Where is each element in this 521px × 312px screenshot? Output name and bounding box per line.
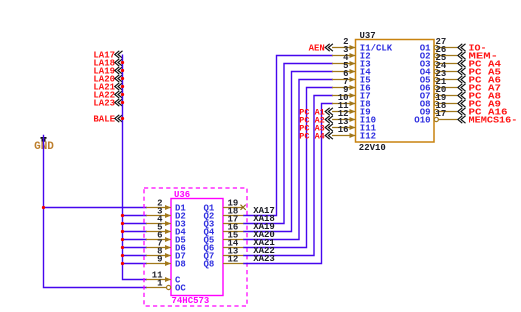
U37 pin O3 (pin 25, active low) (420, 53, 457, 69)
wire: GND vertical down to U36 pin OC (44, 135, 148, 288)
U37 pin O10 (pin 17, active low) (414, 109, 457, 125)
junction D8 (121, 262, 124, 265)
ground symbol GND (34, 137, 54, 153)
svg-text:16: 16 (338, 125, 349, 135)
wire XA20: U36 Q5 up to U37 I5 (243, 80, 333, 240)
net label LA18 with off-page connector (93, 58, 122, 68)
U37 pin I3 (pin 4) (332, 53, 371, 69)
U36 pin C (pin 11) (146, 270, 181, 285)
net label PC A9 with off-page connector (458, 98, 502, 109)
net label MEMCS16- with off-page connector (458, 114, 518, 125)
U36 pin Q2 (pin 18) (203, 206, 244, 221)
U37 pin I10 (pin 12) (332, 109, 376, 125)
svg-text:17: 17 (436, 109, 447, 119)
U36 pin D3 (pin 4) (146, 214, 186, 229)
U36 pin Q6 (pin 14) (203, 238, 244, 253)
wire: bus to U36 pin D7 (123, 255, 148, 257)
no-connect X on U36 pin Q1 (241, 205, 246, 210)
net label PC A16 with off-page connector (458, 106, 508, 117)
svg-text:MEMCS16-: MEMCS16- (469, 114, 518, 125)
net label PC A8 with off-page connector (458, 90, 502, 101)
wire: LA/BALE vertical bus down to U36 pin C (123, 55, 148, 280)
U36 pin Q4 (pin 16) (203, 222, 244, 237)
junction GND/D1 branch (42, 206, 45, 209)
junction D6 (121, 246, 124, 249)
U36 pin Q3 (pin 17) (203, 214, 244, 229)
net label LA19 with off-page connector (93, 66, 122, 76)
net label PC A3 with off-page connector (299, 123, 333, 133)
net label LA21 with off-page connector (93, 82, 122, 92)
wire XA23: U36 Q8 up to U37 I8 (243, 104, 333, 264)
wire XA21: U36 Q6 up to U37 I6 (243, 88, 333, 248)
svg-text:U36: U36 (174, 190, 190, 200)
junction D5 (121, 238, 124, 241)
wire XA17: U36 Q2 up to U37 I2 (243, 56, 333, 216)
svg-text:BALE: BALE (93, 114, 115, 124)
U37 pin O1 (pin 27, active low) (420, 37, 457, 53)
U37 pin O4 (pin 24, active low) (420, 61, 457, 77)
wire: bus to U36 pin D6 (123, 247, 148, 249)
U36 pin D5 (pin 6) (146, 230, 186, 245)
PLD U37 22V10 body (356, 40, 435, 143)
U36 pin D7 (pin 8) (146, 246, 186, 261)
svg-text:AEN: AEN (309, 43, 325, 53)
svg-text:U37: U37 (360, 31, 376, 41)
net label LA17 with off-page connector (93, 50, 122, 60)
junction LA19 (121, 69, 124, 72)
U37 pin I8 (pin 10) (332, 93, 371, 109)
U37 pin I5 (pin 6) (332, 69, 371, 85)
net label BALE with off-page connector (93, 114, 122, 124)
U37 pin I9 (pin 11) (332, 101, 371, 117)
U36 pin D2 (pin 3) (146, 206, 186, 221)
svg-text:D8: D8 (175, 259, 186, 269)
svg-text:Q8: Q8 (203, 259, 214, 269)
svg-text:PC A4: PC A4 (299, 131, 325, 141)
U37 pin I7 (pin 9) (332, 85, 371, 101)
wire: bus to U36 pin D5 (123, 239, 148, 241)
net label LA22 with off-page connector (93, 90, 122, 100)
wire XA18: U36 Q3 up to U37 I3 (243, 64, 333, 224)
svg-text:22V10: 22V10 (359, 143, 386, 153)
svg-text:LA23: LA23 (93, 98, 115, 108)
net label PC A1 with off-page connector (299, 107, 333, 117)
U37 pin O2 (pin 26, active low) (420, 45, 457, 61)
U37 pin I2 (pin 3) (332, 45, 371, 61)
net label PC A6 with off-page connector (458, 74, 502, 85)
U36 pin Q1 (pin 19) (203, 198, 244, 213)
junction D2 (121, 214, 124, 217)
net label MEM- with off-page connector (458, 50, 498, 61)
wire: bus to U36 pin D2 (123, 215, 148, 217)
U37 pin I12 (pin 16) (332, 125, 376, 141)
junction LA20 (121, 77, 124, 80)
junction BALE (121, 117, 124, 120)
svg-text:I12: I12 (360, 131, 376, 141)
U36 pin D4 (pin 5) (146, 222, 186, 237)
U37 pin I4 (pin 5) (332, 61, 371, 77)
svg-text:OC: OC (175, 283, 186, 293)
net label IO- with off-page connector (458, 42, 487, 53)
U37 pin I11 (pin 13) (332, 117, 377, 133)
junction D4 (121, 230, 124, 233)
U37 pin I6 (pin 7) (332, 77, 371, 93)
net label PC A2 with off-page connector (299, 115, 333, 125)
U37 pin O8 (pin 19, active low) (420, 93, 457, 109)
U36 pin D1 (pin 2) (146, 198, 186, 213)
latch U36 74HC573 body (171, 199, 223, 296)
wire XA22: U36 Q7 up to U37 I7 (243, 96, 333, 256)
svg-text:XA23: XA23 (253, 254, 275, 264)
U37 pin O6 (pin 21, active low) (420, 77, 457, 93)
net label PC A7 with off-page connector (458, 82, 501, 93)
junction LA18 (121, 61, 124, 64)
wire: bus to U36 pin D4 (123, 231, 148, 233)
net label LA23 with off-page connector (93, 98, 122, 108)
wire: bus to U36 pin D8 (123, 263, 148, 265)
junction D7 (121, 254, 124, 257)
U36 pin Q5 (pin 15) (203, 230, 244, 245)
net label PC A4 with off-page connector (458, 58, 502, 69)
svg-text:GND: GND (34, 141, 54, 153)
U36 pin OC (pin 1, active low) (146, 278, 186, 293)
svg-text:12: 12 (228, 254, 239, 264)
svg-text:9: 9 (157, 254, 162, 264)
net label PC A4 with off-page connector (299, 131, 333, 141)
svg-text:O10: O10 (414, 115, 430, 125)
U37 pin O5 (pin 23, active low) (420, 69, 457, 85)
U37 pin O9 (pin 18, active low) (420, 101, 457, 117)
net label LA20 with off-page connector (93, 74, 122, 84)
net label AEN with off-page connector (309, 43, 333, 53)
junction LA21 (121, 85, 124, 88)
U37 pin O7 (pin 20, active low) (420, 85, 457, 101)
wire: bus to U36 pin D3 (123, 223, 148, 225)
svg-text:1: 1 (157, 278, 163, 288)
U36 pin D8 (pin 9) (146, 254, 186, 269)
net label PC A5 with off-page connector (458, 66, 502, 77)
U36 pin Q8 (pin 12) (203, 254, 244, 269)
junction D3 (121, 222, 124, 225)
wire XA19: U36 Q4 up to U37 I4 (243, 72, 333, 232)
U36 dashed selection box (144, 188, 247, 306)
svg-text:74HC573: 74HC573 (172, 296, 210, 306)
junction LA23 (121, 101, 124, 104)
U37 pin I1/CLK (pin 2) (332, 37, 393, 53)
junction LA22 (121, 93, 124, 96)
U36 pin D6 (pin 7) (146, 238, 186, 253)
wire: branch from GND line to U36 pin D1 (44, 207, 148, 209)
U36 pin Q7 (pin 13) (203, 246, 244, 261)
